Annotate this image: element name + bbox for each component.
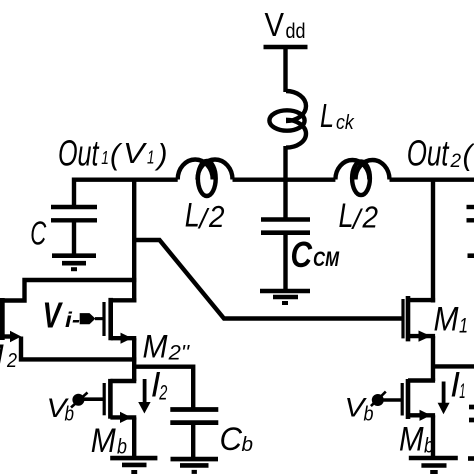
label I1 [450,366,465,405]
wire rail right segment [390,177,474,181]
label C_CM [291,234,340,275]
svg-text:V: V [265,6,285,43]
svg-text:M: M [91,422,117,460]
svg-text:1: 1 [459,380,465,403]
svg-text:C: C [291,234,313,275]
wire source node right to edge [433,364,474,368]
transistor M2' channel stub [0,298,5,340]
transistor M2' source arrow [10,331,21,342]
inductor L_ck [286,91,306,121]
svg-text:(: ( [463,139,474,172]
input marker Vi- [80,313,96,324]
svg-text:1: 1 [459,315,468,338]
transistor Mb right gate bar [401,383,404,416]
svg-text:1: 1 [147,148,155,168]
label Vb right [345,393,374,426]
capacitor Cb plates [170,407,218,412]
svg-text:2: 2 [6,350,17,372]
label Mb left [91,422,127,460]
node Out1(V1) label [58,133,168,174]
svg-text:C: C [220,421,243,457]
svg-text:L: L [185,197,200,235]
label Lck [320,98,355,135]
ground below C_CM [260,289,310,294]
inductor L/2 left [178,160,213,180]
inductor L/2 right [335,160,369,179]
label Vb left [47,393,75,425]
transistor Mb left gate bar [103,383,106,415]
label M1 [434,301,469,339]
wire M2'' source down to Mb [132,338,136,381]
svg-text:b: b [424,435,434,458]
transistor M2'' channel bar [108,298,113,340]
svg-text:Out: Out [407,133,450,174]
svg-text:ck: ck [336,112,355,134]
transistor M1 gate bar [401,299,404,338]
wire Cb to ground [191,423,195,457]
svg-text:i-: i- [65,309,80,332]
svg-text:2'': 2'' [168,342,191,365]
capacitor C plates [51,205,97,209]
label Vdd [265,6,306,43]
wire rail middle segment [233,177,336,181]
svg-text:dd: dd [286,20,306,43]
transistor Mb left drain lead [110,379,136,383]
svg-text:L: L [320,98,334,135]
svg-text:CM: CM [313,247,340,271]
transistor M1 drain lead [408,298,435,302]
svg-text:L: L [339,197,354,235]
capacitor Cb right edge stub plates [469,405,474,410]
ground below C [52,253,96,258]
power rail Vdd bar [264,45,308,50]
transistor Mb left source arrow [120,412,132,423]
svg-text:Out: Out [58,133,100,174]
transistor Mb right drain lead [408,378,435,382]
svg-text:V: V [123,138,147,170]
wire cross-coupling Out1 to M1 gate [134,240,402,319]
wire C to ground [72,221,76,254]
svg-text:M: M [434,301,460,339]
wire M2' drain to M2'' drain [0,280,136,301]
wire Vb left to gate [82,397,104,401]
transistor M2'' source lead [111,336,137,340]
svg-text:b: b [242,434,254,456]
wire source node to Cb [134,367,193,408]
transistor M1 source arrow [419,331,431,342]
transistor Mb right channel bar [406,379,411,419]
svg-text:1: 1 [101,148,109,168]
wire Out1 vertical [132,180,136,303]
transistor M2'' source arrow [121,333,133,344]
svg-text:2: 2 [450,151,462,172]
svg-text:M: M [0,338,4,374]
label I2 [151,366,168,405]
wire Vb left tail [71,393,88,408]
transistor Mb left channel bar [108,379,113,419]
transistor Mb right source lead [408,413,435,417]
wire C_CM from rail [283,180,287,218]
wire C_CM to ground [283,234,287,290]
capacitor C right edge stub plates [467,205,474,209]
svg-text:b: b [65,403,75,425]
wire Mb right source to ground [431,415,435,458]
svg-text:2: 2 [208,199,224,234]
transistor M2'' gate bar [102,302,105,336]
input dot Vb right [372,394,384,406]
svg-text:b: b [364,404,374,426]
svg-text:M: M [143,328,168,364]
arrowhead I2 [138,402,150,414]
transistor M2' source lead [0,334,11,338]
svg-text:C: C [30,215,47,252]
arrowhead I1 [438,403,450,415]
label Cb [220,421,254,457]
label Mb right [399,421,434,459]
svg-text:V: V [43,295,64,336]
transistor M1 source lead [408,334,435,338]
node Out2(V2) label [407,133,474,174]
wire Vdd to Lck [283,45,287,92]
wire Out2 vertical (M1 drain) [431,180,435,303]
wire Mb source to ground [132,417,136,458]
label Vi- [43,295,81,336]
svg-text:M: M [399,421,424,459]
ground below Cb [171,457,219,462]
ground right edge stub [468,253,474,258]
current arrow I1 [442,382,446,404]
transistor Mb left source lead [110,415,136,419]
label L/2 left [185,197,225,235]
wire rail left segment with corner to capacitor C [74,180,178,206]
label M2'' [143,328,191,364]
label M2' [0,338,22,374]
ground below Mb left [110,456,157,461]
ground below Mb right [409,456,458,461]
transistor M2'' drain lead [111,298,137,302]
capacitor C_CM plates [261,217,310,222]
current arrow I2 [143,379,147,402]
wire M1 source down to Mb right [431,336,435,381]
transistor Mb right source arrow [420,410,431,421]
label L/2 right [339,197,379,235]
svg-text:b: b [117,436,127,459]
svg-text:2: 2 [159,381,168,404]
svg-text:2: 2 [362,200,378,235]
wire Vb right tail [371,392,386,407]
transistor M1 channel bar [406,296,411,341]
input dot Vb left [72,394,84,406]
wire Lck to rail [283,146,287,182]
wire Vb right to gate [381,398,402,402]
ground right bottom edge stub [468,456,474,461]
